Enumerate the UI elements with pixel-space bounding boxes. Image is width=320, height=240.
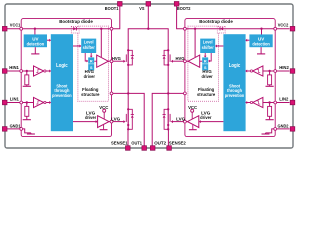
svg-text:HVG: HVG bbox=[112, 56, 122, 61]
low-side MOSFET (ch1) bbox=[127, 108, 134, 130]
UV detection block (ch2) bbox=[249, 34, 272, 47]
pin VCC2 bbox=[290, 26, 295, 31]
pin OUT2 bbox=[150, 146, 155, 151]
bootstrap diode D1 (ch1) bbox=[73, 27, 76, 31]
ground symbol GND pin (ch2) bbox=[262, 133, 270, 134]
node circle VCC rail / box edge (ch2) bbox=[274, 27, 277, 30]
wire OUT node to OUT pin (ch1) bbox=[128, 93, 144, 145]
wire HVG output (ch2) bbox=[186, 60, 188, 62]
UV detection block (ch1) bbox=[24, 34, 47, 47]
ground below UV detection (ch2) bbox=[257, 47, 265, 54]
ground below LIN resistor (ch2) bbox=[266, 119, 274, 121]
arrow LVG to gate (ch2) bbox=[171, 120, 184, 123]
ground below LVG driver (ch1) bbox=[100, 125, 108, 130]
arrow UV to Logic (ch1) bbox=[47, 39, 51, 42]
schmitt buffer HIN (ch2) bbox=[253, 66, 263, 76]
svg-text:Bootstrap diode: Bootstrap diode bbox=[59, 19, 93, 24]
junction LIN pulldown (ch1) bbox=[26, 101, 28, 103]
junction HIN pulldown (ch2) bbox=[268, 70, 270, 72]
junction OUT node (ch2) bbox=[167, 92, 169, 94]
ground below HIN resistor (ch1) bbox=[23, 85, 31, 87]
wire VCC rail to BOOT (ch2) bbox=[177, 6, 290, 29]
svg-text:HIN1: HIN1 bbox=[9, 65, 19, 71]
junction HVG driver supply tap (ch2) bbox=[194, 28, 196, 58]
resistor LIN pull-down (ch2) bbox=[268, 103, 272, 120]
node circle floating / box edge (ch2) bbox=[184, 92, 187, 95]
svg-text:LIN1: LIN1 bbox=[10, 97, 19, 103]
pin HIN1 bbox=[2, 69, 7, 74]
svg-text:VS: VS bbox=[139, 6, 145, 12]
arrow HVG to gate (ch1) bbox=[113, 60, 126, 63]
wire LVG output (ch2) bbox=[186, 121, 187, 123]
svg-text:LVG: LVG bbox=[111, 117, 121, 122]
wire source to SENSE pin (ch1) bbox=[127, 129, 129, 146]
wire half-bridge mid column (ch2) bbox=[167, 65, 169, 109]
schmitt buffer LIN (ch1) bbox=[34, 97, 44, 107]
channel boundary box (ch2) bbox=[185, 19, 275, 137]
level shifter block (ch1) bbox=[81, 39, 96, 53]
wire level shifter to latch set (ch2) bbox=[208, 53, 211, 62]
wire VCC rail to BOOT (ch1) bbox=[7, 6, 120, 29]
junction HIN pulldown (ch1) bbox=[26, 70, 28, 72]
wire VS pin stem bbox=[147, 6, 149, 29]
node circle BOOT rail / box edge (ch2) bbox=[184, 27, 187, 30]
wire HVG output (ch1) bbox=[108, 60, 110, 62]
arrow LVG to gate (ch1) bbox=[113, 120, 126, 123]
high-side MOSFET gate (ch1) bbox=[125, 54, 127, 62]
svg-text:OUT1: OUT1 bbox=[131, 141, 142, 147]
ground below HIN resistor (ch2) bbox=[266, 85, 274, 87]
svg-text:SENSE2: SENSE2 bbox=[169, 141, 186, 147]
node circle GND / box edge (ch2) bbox=[274, 127, 277, 130]
resistor LIN pull-down (ch1) bbox=[25, 103, 29, 120]
Logic / shoot-through block (ch2) bbox=[223, 34, 245, 131]
svg-text:BOOT1: BOOT1 bbox=[105, 6, 119, 12]
wire GND input (ch1) bbox=[7, 129, 31, 133]
pin LIN2 bbox=[290, 100, 295, 105]
node circle HIN / box edge (ch2) bbox=[274, 70, 277, 73]
pin SENSE1 bbox=[126, 146, 131, 151]
pin SENSE2 bbox=[167, 146, 172, 151]
wire LIN input (ch2) bbox=[263, 102, 290, 104]
svg-text:LVG: LVG bbox=[176, 117, 186, 122]
RS latch block (ch2) bbox=[202, 57, 208, 70]
LVG driver buffer (ch2) bbox=[187, 116, 198, 128]
arrow Logic to LVG driver (ch2) bbox=[199, 120, 224, 123]
Logic / shoot-through block (ch1) bbox=[51, 34, 73, 131]
svg-text:VCC2: VCC2 bbox=[278, 23, 289, 29]
svg-text:HIN2: HIN2 bbox=[279, 65, 289, 71]
wire OUT node to OUT pin (ch2) bbox=[152, 93, 168, 145]
low-side MOSFET gate (ch1) bbox=[125, 114, 127, 122]
wire level shifter to latch reset (ch2) bbox=[204, 53, 207, 58]
node circle LIN / box edge (ch2) bbox=[274, 101, 277, 104]
bootstrap diode dashed box (ch2) bbox=[217, 26, 225, 33]
node circle GND / box edge (ch1) bbox=[20, 127, 23, 130]
resistor HIN pull-down (ch1) bbox=[25, 71, 29, 86]
pin GND2 bbox=[290, 127, 295, 132]
wire half-bridge mid column (ch1) bbox=[127, 65, 129, 109]
svg-text:shifter: shifter bbox=[202, 45, 214, 50]
svg-text:VCC1: VCC1 bbox=[10, 23, 21, 29]
arrow Logic to LVG driver (ch1) bbox=[73, 120, 98, 123]
wire LIN input (ch1) bbox=[7, 102, 34, 104]
node circle LIN / box edge (ch1) bbox=[20, 101, 23, 104]
level shifter block (ch2) bbox=[200, 39, 215, 53]
wire HIN input (ch2) bbox=[263, 70, 290, 72]
svg-text:BOOT2: BOOT2 bbox=[177, 6, 191, 12]
high-side MOSFET gate (ch2) bbox=[169, 54, 171, 62]
VCC terminal of LVG driver (ch1) bbox=[103, 109, 106, 119]
svg-text:driver: driver bbox=[200, 115, 211, 120]
HVG driver buffer (ch1) bbox=[97, 55, 109, 67]
wire GND input (ch2) bbox=[266, 129, 290, 133]
HVG driver buffer (ch2) bbox=[188, 55, 200, 67]
svg-text:LIN2: LIN2 bbox=[279, 97, 288, 103]
svg-text:SENSE1: SENSE1 bbox=[111, 141, 128, 147]
junction HVG driver supply tap (ch1) bbox=[100, 28, 102, 58]
node circle VCC rail / box edge (ch1) bbox=[20, 27, 23, 30]
low-side MOSFET (ch2) bbox=[163, 108, 170, 130]
wire VS rail half (ch2) bbox=[148, 29, 168, 51]
VCC terminal of LVG driver (ch2) bbox=[191, 109, 194, 119]
node circle HVG / box edge (ch2) bbox=[184, 60, 187, 63]
svg-text:R: R bbox=[204, 59, 207, 63]
wire level shifter to latch set (ch1) bbox=[85, 53, 88, 62]
node circle LVG / box edge (ch2) bbox=[184, 120, 187, 123]
svg-text:VCC: VCC bbox=[188, 105, 198, 110]
ground below UV detection (ch1) bbox=[31, 47, 39, 54]
junction VS rail bbox=[147, 28, 149, 30]
wire floating structure to OUT node (ch2) bbox=[168, 92, 185, 94]
svg-text:R: R bbox=[90, 59, 93, 63]
schmitt buffer LIN (ch2) bbox=[253, 97, 263, 107]
svg-text:VCC: VCC bbox=[99, 105, 109, 110]
bootstrap diode dashed box (ch1) bbox=[71, 26, 79, 33]
svg-text:shifter: shifter bbox=[83, 45, 95, 50]
pin VCC1 bbox=[2, 26, 7, 31]
node circle BOOT rail / box edge (ch1) bbox=[110, 27, 113, 30]
svg-text:driver: driver bbox=[85, 115, 96, 120]
wire level shifter to latch reset (ch1) bbox=[90, 53, 93, 58]
arrow Logic to level shifter (ch2) bbox=[215, 45, 223, 48]
low-side MOSFET gate (ch2) bbox=[169, 114, 171, 122]
high-side MOSFET (ch2) bbox=[163, 49, 170, 66]
floating structure dashed box (ch2) bbox=[188, 26, 219, 101]
svg-text:OUT2: OUT2 bbox=[154, 141, 166, 147]
buffer LIN output to Logic (ch2) bbox=[245, 101, 252, 104]
node circle floating / box edge (ch1) bbox=[110, 92, 113, 95]
arrow Logic to level shifter (ch1) bbox=[73, 45, 81, 48]
svg-text:Logic: Logic bbox=[229, 63, 241, 69]
IC outer border bbox=[5, 4, 293, 148]
pin LIN1 bbox=[2, 100, 7, 105]
junction LIN pulldown (ch2) bbox=[268, 101, 270, 103]
svg-text:detection: detection bbox=[252, 41, 270, 46]
pin BOOT2 bbox=[174, 2, 179, 7]
pin BOOT1 bbox=[118, 2, 123, 7]
svg-text:GND1: GND1 bbox=[10, 123, 21, 129]
wire HIN input (ch1) bbox=[7, 70, 34, 72]
buffer LIN output to Logic (ch1) bbox=[44, 101, 51, 104]
schmitt buffer HIN (ch1) bbox=[34, 66, 44, 76]
wire latch to HVG driver (ch2) bbox=[200, 60, 203, 62]
node circle HVG / box edge (ch1) bbox=[110, 60, 113, 63]
svg-text:structure: structure bbox=[197, 92, 216, 97]
svg-text:GND2: GND2 bbox=[278, 123, 289, 129]
high-side MOSFET (ch1) bbox=[127, 49, 134, 66]
wire LVG output (ch1) bbox=[109, 121, 110, 123]
svg-text:HVG: HVG bbox=[176, 56, 186, 61]
svg-text:driver: driver bbox=[84, 74, 95, 79]
junction OUT node (ch1) bbox=[127, 92, 129, 94]
wire floating structure to OUT node (ch1) bbox=[112, 92, 129, 94]
pin HIN2 bbox=[290, 69, 295, 74]
pin OUT1 bbox=[142, 146, 147, 151]
pin GND1 bbox=[2, 127, 7, 132]
svg-text:Logic: Logic bbox=[56, 63, 68, 69]
ground below LIN resistor (ch1) bbox=[23, 119, 31, 121]
svg-text:prevention: prevention bbox=[52, 93, 72, 98]
svg-text:Bootstrap diode: Bootstrap diode bbox=[199, 19, 233, 24]
buffer HIN output to Logic (ch2) bbox=[245, 70, 252, 73]
svg-text:structure: structure bbox=[81, 92, 100, 97]
junction UV supply tap (ch1) bbox=[34, 28, 36, 35]
LVG driver buffer (ch1) bbox=[98, 116, 109, 128]
resistor HIN pull-down (ch2) bbox=[268, 71, 272, 86]
ground below LVG driver (ch2) bbox=[189, 125, 197, 130]
wire latch to HVG driver (ch1) bbox=[94, 60, 97, 62]
arrow UV to Logic (ch2) bbox=[245, 39, 249, 42]
buffer HIN output to Logic (ch1) bbox=[44, 70, 51, 73]
bootstrap diode D1 (ch2) bbox=[220, 27, 223, 31]
arrow HVG to gate (ch2) bbox=[171, 60, 184, 63]
wire VS rail half (ch1) bbox=[128, 29, 148, 51]
svg-text:detection: detection bbox=[27, 41, 45, 46]
node circle HIN / box edge (ch1) bbox=[20, 70, 23, 73]
ground symbol GND pin (ch1) bbox=[27, 133, 35, 134]
channel boundary box (ch1) bbox=[21, 19, 111, 137]
svg-text:prevention: prevention bbox=[225, 93, 245, 98]
node circle LVG / box edge (ch1) bbox=[110, 120, 113, 123]
wire source to SENSE pin (ch2) bbox=[167, 129, 169, 146]
RS latch block (ch1) bbox=[88, 57, 94, 70]
junction UV supply tap (ch2) bbox=[260, 28, 262, 35]
svg-text:driver: driver bbox=[201, 74, 212, 79]
floating structure dashed box (ch1) bbox=[78, 26, 109, 101]
pin VS bbox=[146, 2, 151, 7]
